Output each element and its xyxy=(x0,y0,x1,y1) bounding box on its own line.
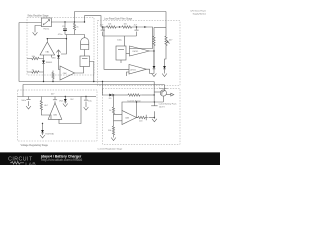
ground (right diode) xyxy=(162,74,167,77)
svg-text:Transistor: Transistor xyxy=(159,87,168,90)
wire: filter ground rail xyxy=(103,35,137,37)
svg-text:Current Regulation Stage: Current Regulation Stage xyxy=(98,147,123,150)
resistor R2 (horizontal) xyxy=(27,57,39,59)
wire: collector to bus2 xyxy=(163,85,165,91)
node: OA3 to pot junction xyxy=(153,50,154,51)
capacitor C7 (series) xyxy=(137,115,155,120)
svg-text:LAB: LAB xyxy=(25,161,36,165)
wire: stage 3 top rail xyxy=(18,96,82,98)
potentiometer R8 (right divider leg) xyxy=(165,28,170,67)
svg-text:12V Gross Power: 12V Gross Power xyxy=(190,11,206,13)
wire: stage 3 right side feedback loop xyxy=(59,97,81,124)
wire: ladder output to OA3 xyxy=(130,27,153,49)
op-amp OA5 (points up) xyxy=(48,103,62,119)
svg-text:http://circuitlab.com/c99666: http://circuitlab.com/c99666 xyxy=(41,158,82,162)
wire: drop from top rail to divider xyxy=(165,12,167,28)
dashed stage box 3: Voltage Regulating Stage xyxy=(18,90,98,141)
wire: OA6 inverting input xyxy=(114,120,123,122)
wire: transistor base xyxy=(154,91,160,93)
op-amp OA3 xyxy=(130,46,150,56)
dashed stage box 4: Current Regulation Stage xyxy=(103,89,181,145)
resistor R1 (vertical) xyxy=(73,22,75,35)
svg-text:OA2: OA2 xyxy=(63,72,67,75)
ground (C4) xyxy=(26,104,31,109)
zener diode D9 xyxy=(41,124,44,136)
wire: rail drop to block U2 xyxy=(124,36,126,46)
wire: U2 to OA3 inverting input xyxy=(126,53,130,55)
resistor R5 (horizontal) xyxy=(107,26,123,28)
wire: OA4 lower input stub xyxy=(127,72,130,76)
svg-text:Supply Monitor: Supply Monitor xyxy=(193,13,207,16)
resistor R11 (vertical on input rail) xyxy=(112,95,114,126)
capacitor C2 (shunt) xyxy=(101,27,105,36)
node: battery top junction xyxy=(154,101,155,102)
op-amp OA2 (points right) xyxy=(60,66,75,80)
wire: rail drop via x66.4 xyxy=(61,35,66,55)
svg-text:1N4733A: 1N4733A xyxy=(45,132,54,135)
node: feedback junction xyxy=(136,101,137,102)
wire: top distribution rail xyxy=(75,11,167,13)
ground (D8) xyxy=(63,104,68,107)
node: C2 top xyxy=(102,26,103,27)
wire: OA1 left input xyxy=(39,55,44,59)
wire: feedback rail to emitter node xyxy=(137,101,164,103)
transistor Q2 (BJT in circle) xyxy=(160,90,166,96)
node: C3 top xyxy=(136,26,137,27)
wire: OA6 feedback loop xyxy=(122,102,137,118)
resistor R7 (left divider leg) xyxy=(153,28,155,67)
op-amp OA6 xyxy=(122,111,137,125)
svg-text:LM741: LM741 xyxy=(130,69,136,71)
wire: rail extended over C6 xyxy=(81,96,96,98)
wire: drop from top rail into rectifier xyxy=(74,12,76,23)
op-amp OA1 (points up) xyxy=(40,42,55,55)
wire: OA3 output to left diode xyxy=(150,51,155,66)
svg-text:Li-Ion Battery Pack: Li-Ion Battery Pack xyxy=(159,102,178,105)
wire: bus2 drop into stage 3 xyxy=(22,85,24,97)
node: output to battery wire junction xyxy=(154,117,155,118)
wire: bottom rail of rectifier xyxy=(65,34,85,36)
wire: feedback vertical to OA4 input xyxy=(104,27,129,69)
ground (input rail) xyxy=(111,138,116,141)
capacitor C4 (to ground) xyxy=(26,97,30,105)
wire: sense output to bus drop xyxy=(142,94,154,96)
arrow: transistor pointer xyxy=(167,93,174,96)
svg-text:1N4001: 1N4001 xyxy=(46,62,53,64)
capacitor C6 (to ground) xyxy=(84,97,88,108)
node: junction at C1 xyxy=(64,21,65,22)
svg-text:14.8 V: 14.8 V xyxy=(159,107,166,109)
node: junction OA1 out xyxy=(66,38,67,39)
node: bus junctions xyxy=(43,81,44,82)
wire: bus1 drop into stage 4 xyxy=(103,82,110,96)
ground (D9) xyxy=(40,135,45,138)
node: rail junction at C6 xyxy=(85,96,86,97)
wire: emitter down to feedback rail xyxy=(162,96,164,102)
SCR D4 (arrow + diode stack) xyxy=(56,50,60,70)
footer bar xyxy=(0,153,220,165)
wire: bus 1 (upper horizontal) xyxy=(19,81,154,83)
capacitor C1 xyxy=(63,22,67,35)
ground (left diode) xyxy=(152,74,157,77)
wire: divider top bar xyxy=(154,27,166,29)
ground (transformer) xyxy=(33,30,38,35)
dashed stage box 1: 9Vac Rectifier Stage xyxy=(27,18,94,76)
node: junction feed to top wire xyxy=(74,21,75,22)
node: zener junction xyxy=(42,123,43,124)
transformer T1 xyxy=(42,18,52,27)
node: sense junction xyxy=(154,94,155,95)
resistor R3 (horizontal) xyxy=(27,71,39,73)
node: ladder mid junction xyxy=(119,26,120,27)
wire: filter input xyxy=(101,26,107,28)
diode D7 (right, to ground) xyxy=(163,66,166,74)
wire: bus 2 (lower horizontal) xyxy=(23,84,164,86)
svg-text:LM741: LM741 xyxy=(133,51,139,53)
FOOTER xyxy=(0,152,220,167)
resistor R6 (horizontal) xyxy=(122,26,144,28)
block U2 xyxy=(116,46,126,63)
wire: rectified output top rail xyxy=(51,21,84,23)
wire: OA1 right input stub xyxy=(51,55,53,58)
resistor R13 (OA6 output) xyxy=(137,116,148,118)
wire: OA1 output up xyxy=(47,39,66,42)
resistor R10 Current Sense (horizontal) xyxy=(128,94,142,96)
svg-text:Voltage Regulating Stage: Voltage Regulating Stage xyxy=(21,144,49,147)
wire: R3 to D2 node and down to bus xyxy=(39,72,44,82)
wire: OA6 noninverting input xyxy=(114,113,123,115)
wire: long left vertical to bottom bus xyxy=(18,23,20,82)
wire: rectifier out up and over to filter xyxy=(85,16,102,27)
svg-text:9Vac Rectifier Stage: 9Vac Rectifier Stage xyxy=(28,15,50,18)
wire: bus1 drop to sense wire xyxy=(153,82,155,102)
battery BT1 xyxy=(151,102,157,119)
wire: transformer lower pin to ground xyxy=(35,26,42,31)
diode D6 (left, to ground) xyxy=(153,66,156,74)
wire: box output to bus xyxy=(90,62,94,82)
wire: AC input from left edge xyxy=(19,22,42,24)
capacitor C5 (on OA5 output) xyxy=(53,97,57,104)
op-amp OA4 xyxy=(129,65,147,75)
svg-text:Low Pass/Gain Filter Stage: Low Pass/Gain Filter Stage xyxy=(104,17,133,20)
node: junction at rectifier out xyxy=(84,21,85,22)
diode D2 xyxy=(42,59,45,73)
wire: OA4 output joins left diode ground node xyxy=(147,69,155,73)
wire: OA2 output to relay box xyxy=(75,67,84,74)
relay box Q1 xyxy=(80,56,90,67)
capacitor C3 (shunt) xyxy=(134,27,138,36)
resistor R9 (vertical) xyxy=(40,97,51,120)
resistor R4 (vertical, to bus) xyxy=(52,71,54,82)
node: sense rail junction xyxy=(113,94,114,95)
resistor R12 (vertical lower) xyxy=(112,126,114,138)
fuse F1 (dome component) xyxy=(81,35,89,57)
dashed stage box 2: Low Pass/Gain Filter Stage xyxy=(98,21,181,86)
diode D5 (series) xyxy=(109,94,128,97)
svg-text:9Vrms: 9Vrms xyxy=(43,28,49,31)
diode D8 (to ground) xyxy=(64,97,67,104)
node: OA1 output junction xyxy=(47,38,48,39)
node: rail junction at D8 xyxy=(65,96,66,97)
logo resistor zigzag xyxy=(10,161,24,164)
ground (C6) xyxy=(84,107,89,110)
ground (battery) xyxy=(152,119,157,122)
